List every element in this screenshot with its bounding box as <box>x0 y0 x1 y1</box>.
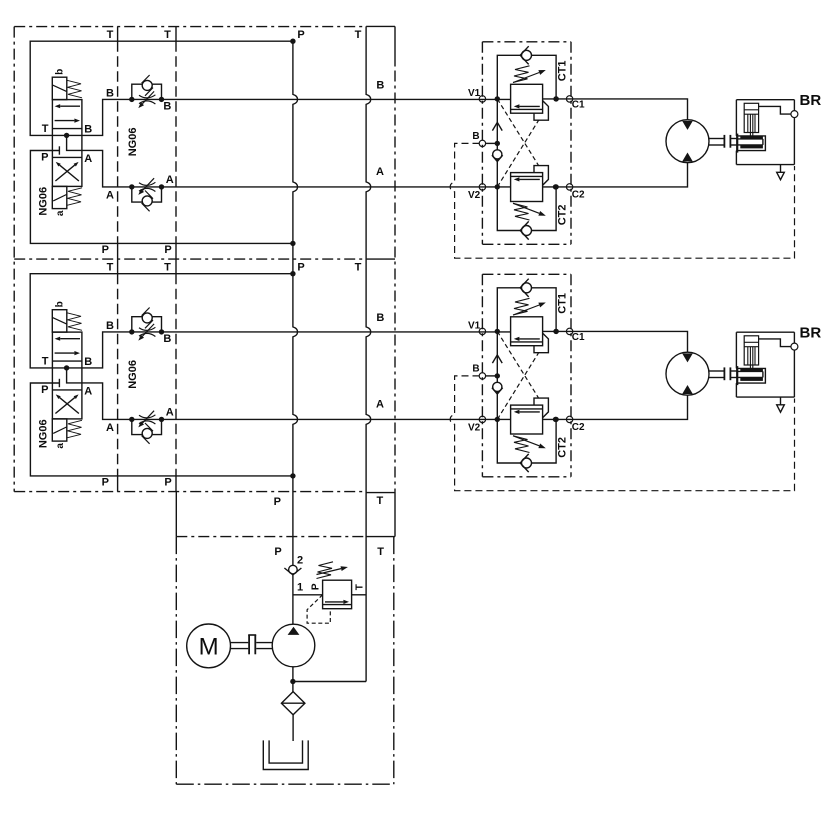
svg-text:A: A <box>106 422 114 434</box>
svg-text:CT2: CT2 <box>557 205 569 226</box>
svg-text:NG06: NG06 <box>38 419 50 448</box>
svg-text:b: b <box>54 69 65 75</box>
svg-text:A: A <box>84 386 92 398</box>
svg-text:CT1: CT1 <box>557 61 569 82</box>
svg-text:P: P <box>41 384 48 396</box>
svg-text:T: T <box>164 261 171 273</box>
svg-text:A: A <box>376 166 384 178</box>
svg-text:A: A <box>166 174 174 186</box>
svg-text:V2: V2 <box>468 422 481 433</box>
svg-text:a: a <box>55 210 66 216</box>
svg-text:B: B <box>376 312 384 324</box>
svg-text:1: 1 <box>297 582 303 594</box>
svg-text:C1: C1 <box>572 99 585 110</box>
svg-text:P: P <box>102 244 109 256</box>
svg-text:A: A <box>376 399 384 411</box>
svg-text:B: B <box>163 333 171 345</box>
svg-text:P: P <box>164 477 171 489</box>
svg-text:a: a <box>55 443 66 449</box>
svg-text:P: P <box>297 29 304 41</box>
svg-text:B: B <box>376 79 384 91</box>
svg-text:C2: C2 <box>572 422 585 433</box>
svg-text:BR: BR <box>800 92 822 109</box>
svg-text:B: B <box>106 88 114 100</box>
svg-text:T: T <box>42 356 49 368</box>
svg-text:B: B <box>106 320 114 332</box>
svg-text:V1: V1 <box>468 321 481 332</box>
svg-text:b: b <box>54 301 65 307</box>
svg-text:B: B <box>472 364 479 375</box>
svg-text:CT2: CT2 <box>557 437 569 458</box>
svg-text:NG06: NG06 <box>127 360 139 389</box>
svg-text:C2: C2 <box>572 189 585 200</box>
svg-text:B: B <box>84 356 92 368</box>
svg-text:P: P <box>164 244 171 256</box>
svg-text:T: T <box>377 495 384 507</box>
svg-text:BR: BR <box>800 325 822 342</box>
svg-text:B: B <box>84 123 92 135</box>
svg-text:B: B <box>472 131 479 142</box>
svg-text:A: A <box>106 190 114 202</box>
svg-text:V1: V1 <box>468 88 481 99</box>
svg-text:T: T <box>164 29 171 41</box>
svg-text:P: P <box>274 496 281 508</box>
svg-text:T: T <box>354 584 365 590</box>
svg-text:T: T <box>107 29 114 41</box>
svg-text:M: M <box>199 633 219 660</box>
svg-text:C1: C1 <box>572 332 585 343</box>
svg-text:V2: V2 <box>468 190 481 201</box>
svg-text:2: 2 <box>297 555 303 567</box>
svg-text:B: B <box>163 100 171 112</box>
svg-text:T: T <box>377 546 384 558</box>
svg-text:P: P <box>274 546 281 558</box>
svg-text:P: P <box>41 152 48 164</box>
svg-text:NG06: NG06 <box>38 187 50 216</box>
svg-text:T: T <box>355 29 362 41</box>
svg-text:T: T <box>355 261 362 273</box>
svg-text:A: A <box>84 153 92 165</box>
svg-text:P: P <box>102 477 109 489</box>
svg-text:T: T <box>107 261 114 273</box>
svg-text:CT1: CT1 <box>557 293 569 314</box>
svg-text:NG06: NG06 <box>127 128 139 157</box>
svg-text:P: P <box>297 261 304 273</box>
svg-text:P: P <box>311 583 322 590</box>
svg-text:T: T <box>42 123 49 135</box>
svg-text:A: A <box>166 407 174 419</box>
